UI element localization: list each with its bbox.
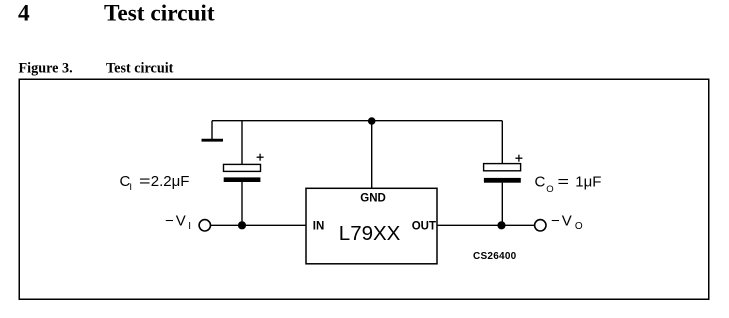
- svg-text:−V: −V: [551, 212, 574, 229]
- svg-text:Figure 3.: Figure 3.: [19, 61, 73, 77]
- svg-text:4: 4: [18, 1, 30, 27]
- svg-text:L79XX: L79XX: [339, 222, 401, 245]
- svg-text:OUT: OUT: [412, 221, 436, 233]
- svg-text:=: =: [139, 173, 151, 190]
- svg-text:GND: GND: [360, 193, 386, 205]
- svg-text:O: O: [575, 221, 583, 232]
- svg-text:−V: −V: [165, 212, 188, 229]
- svg-text:C: C: [535, 174, 546, 191]
- svg-text:Test circuit: Test circuit: [106, 61, 174, 77]
- svg-text:I: I: [129, 182, 132, 193]
- svg-text:IN: IN: [313, 221, 325, 233]
- svg-text:O: O: [546, 184, 553, 195]
- svg-text:2.2μF: 2.2μF: [151, 173, 190, 190]
- svg-text:1μF: 1μF: [575, 174, 601, 191]
- svg-text:Test circuit: Test circuit: [104, 1, 215, 27]
- svg-text:I: I: [188, 221, 191, 232]
- svg-text:=: =: [558, 174, 570, 191]
- svg-text:CS26400: CS26400: [473, 251, 517, 262]
